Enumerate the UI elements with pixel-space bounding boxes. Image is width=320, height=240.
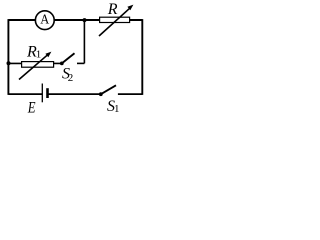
label S2 [62,66,73,85]
node: junction dot on left rail [7,61,11,65]
label E [27,99,36,116]
wire: bottom rail middle segment (battery to switch S1) [48,93,101,95]
wire: left vertical rail [7,19,9,95]
wire: middle branch right stub (S2 to riser corner) [77,62,84,64]
label S1 [107,98,120,115]
wire: bottom rail left segment (battery to left corner) [9,93,43,95]
label R1 [26,44,41,61]
switch S1 (dot and blade) [99,85,116,96]
resistor R (rheostat body) [100,17,130,22]
wire: top rail from left corner through ammeter to R [9,19,143,21]
arrow of rheostat R [99,5,133,36]
battery E: short plate (negative) [46,88,49,98]
node: junction dot on top rail [83,18,87,22]
resistor R1 (rheostat body) [22,62,54,68]
arrow of rheostat R1 [19,52,51,80]
wire: bottom rail right segment (S1 to right corner) [118,93,142,95]
svg-text:2: 2 [68,72,74,84]
svg-text:A: A [40,13,50,28]
svg-text:1: 1 [36,49,42,61]
wire: middle branch left segment (left rail through R1 to S2 dot) [9,62,62,64]
switch S2 (dot and blade) [60,53,75,65]
wire: right vertical rail [141,19,143,95]
svg-text:E: E [27,99,36,116]
label R [107,1,118,18]
battery E: long plate (positive) [41,84,43,103]
wire: riser from middle branch up to top-rail junction [83,20,85,63]
svg-text:R: R [107,1,118,18]
ammeter A [35,11,54,30]
svg-text:1: 1 [114,103,120,115]
